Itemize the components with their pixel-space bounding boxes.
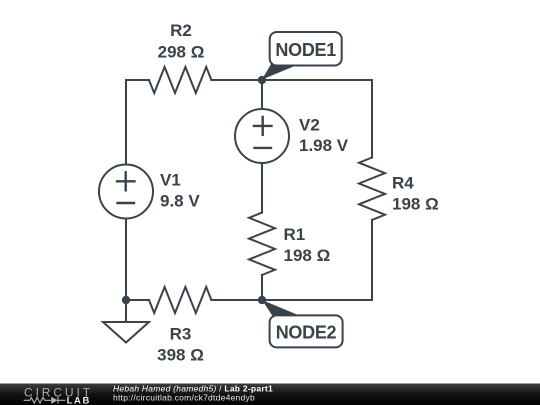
label R2 value: [158, 21, 205, 61]
svg-text:V1: V1: [160, 171, 181, 190]
CircuitLab logo resistor-diode glyph: [24, 397, 66, 404]
voltage source V2: [235, 109, 289, 163]
resistor R2: [149, 67, 211, 93]
label V1 value: [160, 171, 200, 211]
label R1 value: [284, 225, 331, 265]
voltage source V1: [99, 165, 153, 219]
resistor R3: [149, 287, 211, 313]
node A junction dot: [258, 76, 266, 84]
wire right lower vertical: [371, 220, 373, 300]
label V2 value: [299, 116, 349, 156]
svg-text:198 Ω: 198 Ω: [392, 195, 439, 214]
svg-text:LAB: LAB: [67, 395, 91, 405]
wire left lower vertical: [125, 219, 127, 301]
node NODE2 flag pointer: [262, 300, 300, 318]
svg-text:1.98 V: 1.98 V: [299, 136, 349, 155]
footer bar: [0, 384, 540, 405]
svg-text:NODE2: NODE2: [276, 322, 337, 342]
wire left upper vertical: [125, 80, 127, 165]
svg-text:398 Ω: 398 Ω: [157, 345, 204, 364]
wire right upper vertical: [371, 80, 373, 158]
wire top-right horizontal: [211, 79, 372, 81]
wire top-left horizontal: [126, 79, 149, 81]
node B junction dot: [122, 296, 130, 304]
svg-text:NODE1: NODE1: [275, 40, 336, 60]
wire V2 to R1: [261, 163, 263, 213]
wire R1 to node2: [261, 275, 263, 300]
label R3 value: [157, 325, 204, 365]
resistor R4: [359, 158, 385, 220]
svg-text:R1: R1: [284, 225, 306, 244]
svg-text:V2: V2: [299, 116, 320, 135]
svg-text:http://circuitlab.com/ck7dtde4: http://circuitlab.com/ck7dtde4endyb: [113, 393, 255, 403]
resistor R1: [249, 213, 275, 275]
svg-text:R2: R2: [170, 21, 192, 40]
node C junction dot: [258, 296, 266, 304]
wire ground stub: [125, 300, 127, 322]
node NODE1 flag pointer: [262, 62, 296, 80]
wire bottom-right horizontal: [211, 299, 372, 301]
svg-text:198 Ω: 198 Ω: [284, 246, 331, 265]
node NODE1 label box: [270, 32, 342, 66]
wire bottom-left horizontal: [126, 299, 149, 301]
footer title text: [113, 384, 273, 403]
svg-text:9.8 V: 9.8 V: [160, 192, 200, 211]
svg-text:298 Ω: 298 Ω: [158, 43, 205, 62]
svg-text:R4: R4: [392, 174, 414, 193]
CircuitLab logo wordmark: [24, 385, 93, 405]
label R4 value: [392, 174, 439, 214]
ground: [103, 322, 149, 343]
node NODE2 label box: [270, 315, 343, 347]
svg-text:R3: R3: [170, 325, 192, 344]
wire V2 top lead: [261, 80, 263, 109]
